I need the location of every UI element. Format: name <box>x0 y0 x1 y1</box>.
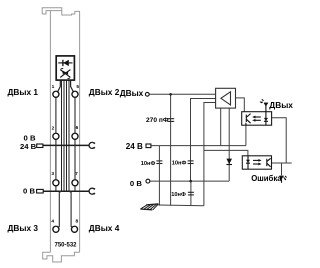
svg-text:3: 3 <box>51 171 54 177</box>
svg-text:Ошибка: Ошибка <box>251 174 282 183</box>
svg-text:270 пФ: 270 пФ <box>146 117 169 124</box>
svg-text:2: 2 <box>52 125 55 131</box>
svg-text:ДВых 3: ДВых 3 <box>8 223 39 233</box>
svg-text:ДВых 2: ДВых 2 <box>89 87 120 97</box>
svg-text:ДВых 4: ДВых 4 <box>89 223 120 233</box>
svg-text:6: 6 <box>76 125 79 131</box>
svg-text:5: 5 <box>76 84 79 90</box>
svg-text:10нФ: 10нФ <box>141 161 156 167</box>
svg-text:ДВых 1: ДВых 1 <box>8 87 39 97</box>
svg-text:8: 8 <box>75 218 78 224</box>
svg-text:750-532: 750-532 <box>55 243 78 249</box>
svg-text:0 В: 0 В <box>130 179 142 188</box>
svg-text:10нФ: 10нФ <box>172 160 187 166</box>
svg-text:1: 1 <box>52 84 55 90</box>
svg-text:ДВых: ДВых <box>120 88 144 98</box>
svg-text:10нФ: 10нФ <box>171 192 186 198</box>
svg-text:0 В: 0 В <box>23 186 35 195</box>
svg-text:24 В: 24 В <box>126 142 143 151</box>
svg-text:7: 7 <box>75 171 78 177</box>
svg-text:0 В: 0 В <box>24 133 36 142</box>
svg-text:24 В: 24 В <box>20 142 37 151</box>
svg-text:ДВых: ДВых <box>269 100 293 110</box>
svg-text:4: 4 <box>51 218 54 224</box>
